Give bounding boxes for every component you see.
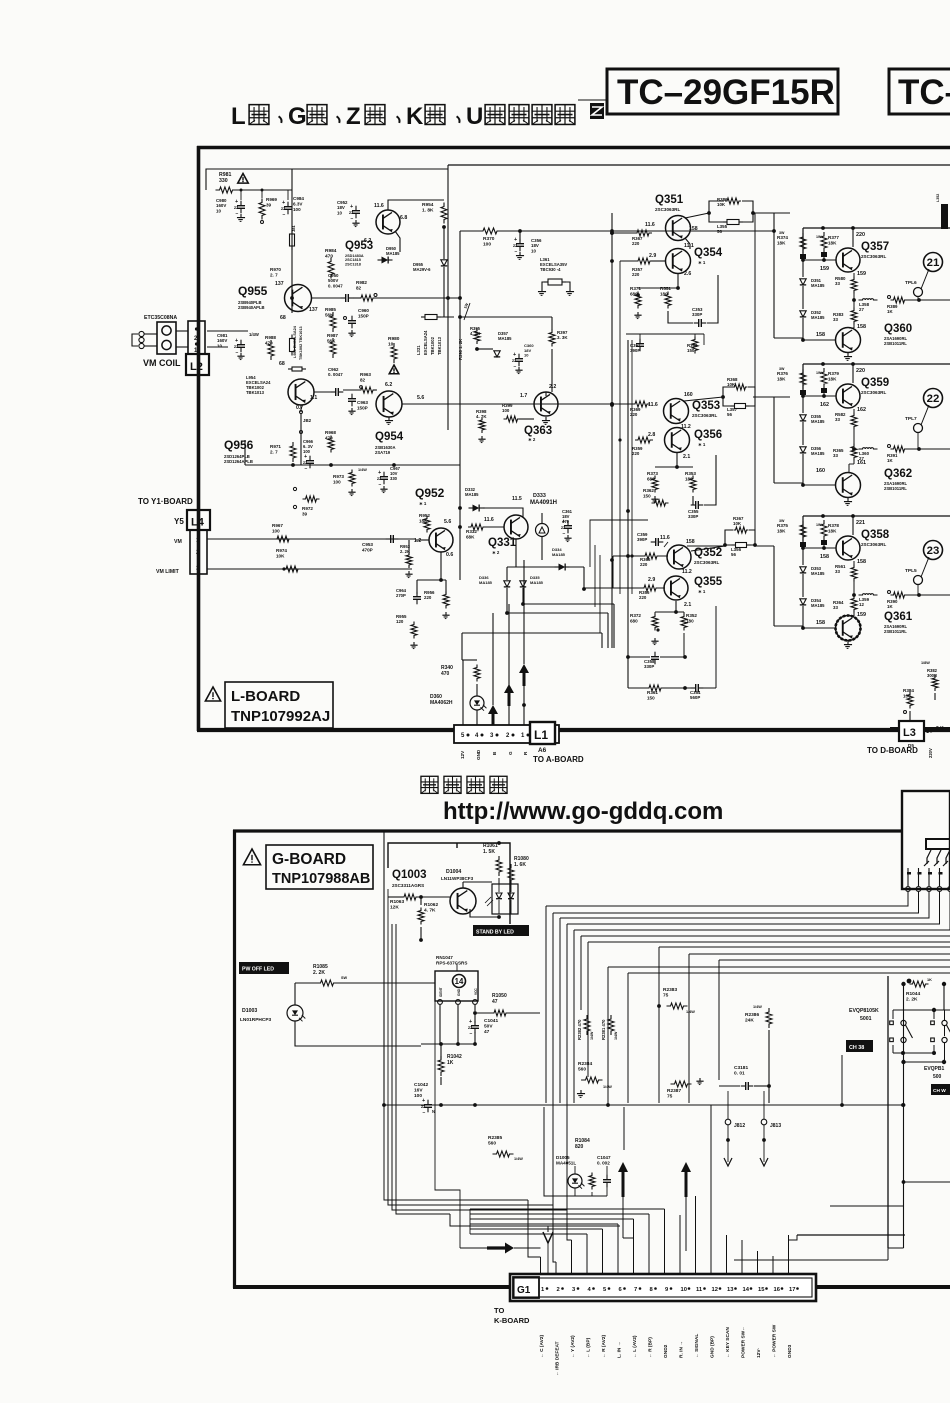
- svg-text:1K: 1K: [887, 604, 893, 609]
- wire L3 up: [909, 711, 911, 721]
- svg-text:TBK1013: TBK1013: [246, 390, 265, 395]
- wire down to L1: [459, 530, 461, 580]
- arrow down open: [547, 1226, 549, 1232]
- svg-text:−: −: [236, 211, 239, 217]
- transistor Q956a: [288, 379, 314, 405]
- svg-text:MA4091H: MA4091H: [530, 500, 557, 506]
- svg-text:TO: TO: [494, 1306, 504, 1315]
- svg-text:TO D-BOARD: TO D-BOARD: [867, 746, 918, 755]
- switch grid contacts: [890, 1021, 894, 1025]
- svg-text:1.1: 1.1: [310, 395, 317, 401]
- capacitor C356: [516, 243, 524, 245]
- svg-text:33: 33: [833, 605, 838, 610]
- svg-text:56: 56: [731, 552, 736, 557]
- svg-text:159: 159: [857, 271, 866, 277]
- svg-text:JB2: JB2: [303, 418, 312, 423]
- circled number 22: [924, 389, 943, 408]
- svg-text:4. 7K: 4. 7K: [424, 908, 436, 914]
- svg-text:Q331: Q331: [488, 537, 517, 549]
- wire loop to bracket C: [755, 545, 774, 547]
- svg-text:270P: 270P: [396, 593, 406, 598]
- svg-text:47: 47: [484, 1029, 490, 1035]
- svg-text:POWER SW←: POWER SW←: [741, 1326, 747, 1358]
- svg-text:G-BOARD: G-BOARD: [272, 851, 346, 868]
- svg-text:MA185: MA185: [811, 451, 825, 456]
- svg-text:MA185: MA185: [530, 580, 544, 585]
- svg-text:2.8: 2.8: [648, 432, 655, 438]
- svg-text:470: 470: [441, 671, 450, 677]
- wire bus465: [245, 464, 460, 466]
- svg-text:R973: R973: [333, 474, 344, 479]
- svg-text:14: 14: [743, 1287, 750, 1293]
- svg-text:R954: R954: [422, 202, 434, 208]
- wire top rail: [803, 515, 950, 517]
- svg-text:R1063: R1063: [390, 899, 404, 905]
- svg-text:2.9: 2.9: [649, 253, 656, 259]
- connector switches: [927, 850, 931, 864]
- title model box TC- (clipped): [889, 69, 950, 114]
- svg-text:33: 33: [833, 453, 838, 458]
- svg-text:10: 10: [681, 1287, 687, 1293]
- svg-text:R1044: R1044: [906, 991, 920, 997]
- svg-text:MA185: MA185: [811, 315, 825, 320]
- svg-text:33: 33: [835, 569, 840, 574]
- wire q956a out: [314, 391, 331, 393]
- svg-text:L331: L331: [416, 345, 421, 355]
- svg-text:12K: 12K: [390, 905, 399, 911]
- svg-text:150: 150: [643, 493, 651, 498]
- svg-text:100: 100: [502, 408, 510, 413]
- svg-text:GND2: GND2: [663, 1344, 669, 1358]
- fan group2 drops: [658, 947, 660, 1003]
- svg-text:−: −: [351, 216, 354, 222]
- L-board label box: [205, 687, 220, 701]
- svg-text:10: 10: [337, 210, 342, 215]
- svg-text:R361: R361: [647, 690, 658, 695]
- svg-text:MA185: MA185: [465, 492, 479, 497]
- wire nested drop loops: [384, 1105, 528, 1200]
- svg-text:18K: 18K: [777, 376, 786, 381]
- svg-text:zz: zz: [349, 210, 353, 215]
- svg-text:2SB1011RL: 2SB1011RL: [884, 341, 907, 346]
- fan wires group1 drops: [545, 906, 547, 1103]
- svg-text:2SA719: 2SA719: [375, 450, 391, 455]
- svg-text:MA4051L: MA4051L: [556, 1160, 576, 1165]
- svg-text:L3: L3: [903, 727, 916, 739]
- svg-text:−: −: [514, 364, 517, 370]
- svg-text:Q1003: Q1003: [392, 869, 427, 881]
- wire led loop: [294, 983, 296, 1005]
- svg-text:Z: Z: [346, 103, 361, 130]
- svg-text:330: 330: [219, 178, 228, 184]
- svg-text:2.6: 2.6: [684, 271, 691, 277]
- svg-text:11.6: 11.6: [484, 517, 494, 523]
- svg-text:2.2: 2.2: [549, 384, 556, 390]
- svg-text:10: 10: [388, 342, 394, 348]
- svg-text:L: L: [231, 103, 246, 130]
- outline q1003 circuit: [388, 843, 510, 924]
- svg-text:220: 220: [424, 595, 432, 600]
- svg-text:R988: R988: [265, 335, 276, 340]
- svg-text:← POWER SW: ← POWER SW: [772, 1324, 778, 1358]
- svg-text:330: 330: [390, 476, 398, 481]
- svg-text:L2: L2: [190, 361, 203, 373]
- svg-text:Q355: Q355: [694, 576, 723, 588]
- svg-text:12V: 12V: [460, 750, 465, 759]
- resistor R359: [635, 437, 653, 443]
- wire vmcoil: [144, 333, 157, 335]
- svg-text:J813: J813: [770, 1123, 781, 1129]
- svg-text:1/4W: 1/4W: [358, 468, 367, 472]
- svg-text:http://www.go-gddq.com: http://www.go-gddq.com: [443, 798, 723, 825]
- wire vert bus448: [447, 231, 449, 298]
- svg-text:R379: R379: [828, 371, 839, 376]
- jumper J812: [725, 1119, 731, 1125]
- svg-text:TPL7: TPL7: [905, 416, 917, 422]
- wire mid rail: [852, 593, 856, 597]
- svg-text:10K: 10K: [717, 202, 726, 207]
- svg-text:159: 159: [857, 612, 866, 618]
- wire left col: [207, 330, 248, 332]
- svg-text:159: 159: [820, 266, 829, 272]
- svg-text:10: 10: [524, 353, 529, 358]
- wire loop to bracket A: [755, 212, 774, 214]
- svg-text:R2387: R2387: [667, 1088, 681, 1094]
- svg-text:R969: R969: [266, 197, 277, 202]
- transistor Q954: [376, 391, 402, 417]
- svg-text:R370: R370: [483, 236, 495, 242]
- svg-text:Q352: Q352: [694, 547, 722, 559]
- svg-text:75: 75: [667, 1094, 673, 1100]
- stand by led tag: [473, 925, 529, 936]
- svg-text:470: 470: [325, 254, 333, 260]
- wire collector: [852, 364, 854, 383]
- tag CH 38: [846, 1040, 873, 1052]
- svg-text:1.7: 1.7: [520, 393, 527, 399]
- wire blockC frame: [627, 340, 629, 688]
- junction dots buses: [610, 231, 614, 235]
- jumper J81: [291, 230, 293, 234]
- svg-text:158: 158: [820, 554, 829, 560]
- svg-text:24K: 24K: [745, 1018, 754, 1024]
- wire q355 down: [675, 601, 677, 612]
- wire vm: [207, 538, 415, 540]
- svg-text:−: −: [470, 1031, 473, 1037]
- svg-text:6.2: 6.2: [364, 238, 371, 244]
- svg-text:L4: L4: [191, 517, 205, 529]
- svg-text:zz: zz: [468, 1025, 472, 1030]
- fan wires group1: [546, 892, 908, 907]
- svg-text:23: 23: [927, 545, 940, 557]
- svg-text:2SC1318: 2SC1318: [345, 262, 361, 266]
- svg-text:∗ 2: ∗ 2: [528, 437, 536, 442]
- svg-text:Q361: Q361: [884, 611, 913, 623]
- wire q354 down: [677, 274, 679, 288]
- svg-text:18K: 18K: [777, 528, 786, 533]
- svg-text:162: 162: [857, 407, 866, 413]
- wire bus1105: [384, 1104, 903, 1106]
- svg-text:Q954: Q954: [375, 431, 404, 443]
- svg-text:2SC3063RL: 2SC3063RL: [861, 542, 886, 547]
- svg-text:R2382 470: R2382 470: [577, 1019, 582, 1040]
- svg-text:2SB940APLB: 2SB940APLB: [238, 305, 265, 310]
- svg-text:39: 39: [302, 511, 308, 516]
- svg-text:390P: 390P: [637, 537, 647, 542]
- svg-text:C960: C960: [358, 308, 369, 313]
- wire pins: [462, 660, 464, 725]
- arrow up 1: [519, 664, 529, 686]
- svg-text:560P: 560P: [690, 695, 700, 700]
- transistor Q360: [836, 328, 861, 353]
- svg-text:158: 158: [816, 332, 825, 338]
- svg-text:R378: R378: [828, 523, 839, 528]
- svg-text:R362: R362: [643, 488, 654, 493]
- svg-text:2SB1011RL: 2SB1011RL: [884, 629, 907, 634]
- svg-text:R374: R374: [777, 235, 788, 240]
- svg-text:150: 150: [687, 348, 695, 353]
- svg-text:2SD1264APLB: 2SD1264APLB: [224, 459, 253, 464]
- svg-text:R952: R952: [419, 513, 430, 518]
- svg-text:LN01RPHCP3: LN01RPHCP3: [240, 1017, 272, 1023]
- svg-text:∗ 1: ∗ 1: [698, 589, 706, 594]
- svg-text:18K: 18K: [828, 240, 837, 245]
- wire collector: [852, 516, 854, 535]
- svg-text:−: −: [515, 249, 518, 255]
- svg-text:120: 120: [396, 619, 404, 624]
- svg-text:TNP107988AB: TNP107988AB: [272, 871, 370, 887]
- svg-text:Q351: Q351: [655, 194, 684, 206]
- svg-text:R967: R967: [272, 523, 283, 528]
- svg-text:R963: R963: [360, 372, 371, 377]
- resistor R356: [641, 585, 659, 591]
- svg-text:220: 220: [856, 232, 865, 238]
- svg-text:158: 158: [857, 324, 866, 330]
- svg-text:L352: L352: [936, 194, 940, 202]
- svg-text:1K: 1K: [927, 978, 932, 982]
- connector L2: [186, 354, 209, 375]
- wire nested loops left: [590, 520, 648, 567]
- svg-text:220: 220: [630, 412, 638, 417]
- svg-text:0.6: 0.6: [446, 552, 453, 558]
- svg-text:R384: R384: [903, 688, 914, 693]
- svg-text:C1042: C1042: [414, 1082, 428, 1088]
- svg-text:21: 21: [927, 257, 940, 269]
- svg-text:RPS-637CSRS: RPS-637CSRS: [436, 960, 467, 965]
- svg-text:330P: 330P: [692, 312, 702, 317]
- svg-text:82: 82: [356, 285, 362, 290]
- svg-text:33: 33: [835, 417, 840, 422]
- wire loop bus vertical: [754, 213, 756, 397]
- svg-text:5001: 5001: [860, 1016, 872, 1022]
- svg-text:TO Y1·BOARD: TO Y1·BOARD: [138, 497, 193, 506]
- wire left rail: [802, 516, 804, 548]
- svg-text:14: 14: [455, 977, 464, 986]
- svg-text:1/4W: 1/4W: [603, 1085, 612, 1089]
- svg-text:560: 560: [578, 1067, 586, 1073]
- svg-text:11.6: 11.6: [648, 402, 658, 408]
- svg-text:J812: J812: [734, 1123, 745, 1129]
- svg-text:2.9: 2.9: [648, 577, 655, 583]
- svg-text:820: 820: [575, 1144, 584, 1150]
- svg-text:∗ 1: ∗ 1: [698, 442, 706, 447]
- svg-text:PW OFF LED: PW OFF LED: [242, 967, 274, 973]
- svg-text:12: 12: [859, 602, 864, 607]
- svg-text:← L (BP): ← L (BP): [586, 1337, 592, 1358]
- svg-text:TO A-BOARD: TO A-BOARD: [533, 755, 584, 764]
- svg-text:G: G: [508, 751, 513, 755]
- svg-text:C1047: C1047: [597, 1155, 611, 1160]
- resistor near d1005: [589, 1173, 595, 1190]
- svg-text:1/4W: 1/4W: [249, 332, 259, 337]
- svg-text:10K: 10K: [733, 521, 742, 526]
- svg-text:← R (BP): ← R (BP): [648, 1337, 654, 1358]
- wire base rail: [803, 547, 836, 549]
- svg-text:10K: 10K: [276, 553, 285, 558]
- svg-text:D1005: D1005: [556, 1155, 570, 1160]
- svg-text:RN1047: RN1047: [436, 955, 453, 960]
- wire top bus: [206, 169, 448, 190]
- connector L4 pins: [190, 530, 207, 574]
- svg-text:10: 10: [216, 208, 221, 213]
- svg-text:11.6: 11.6: [660, 535, 670, 541]
- svg-text:TPL6: TPL6: [905, 280, 917, 286]
- svg-text:← Y (AV2): ← Y (AV2): [570, 1335, 576, 1358]
- wire left rail: [802, 364, 804, 396]
- svg-text:68: 68: [279, 361, 285, 367]
- wire bus mid: [459, 231, 461, 317]
- svg-text:47: 47: [492, 999, 498, 1005]
- svg-text:D333: D333: [533, 493, 546, 499]
- watermark CJK guangdian: [421, 776, 438, 793]
- svg-text:G: G: [288, 103, 307, 130]
- svg-text:GND: GND: [476, 749, 481, 760]
- tag CH W: [931, 1084, 950, 1095]
- svg-text:2SC3063RL: 2SC3063RL: [655, 207, 680, 212]
- G-board outline: [233, 829, 902, 832]
- svg-text:0. 01: 0. 01: [734, 1071, 745, 1077]
- svg-text:R974: R974: [276, 548, 287, 553]
- svg-text:15: 15: [758, 1287, 765, 1293]
- small stamp mark: [590, 103, 604, 119]
- jumper J813: [761, 1119, 767, 1125]
- svg-text:0.7: 0.7: [296, 405, 303, 411]
- svg-text:EVQPB1: EVQPB1: [924, 1066, 945, 1072]
- svg-text:R2385: R2385: [488, 1135, 502, 1141]
- wire g1 riser wires: [540, 1257, 542, 1280]
- arrow up g2: [681, 1162, 691, 1197]
- wire bus y231: [460, 230, 483, 232]
- svg-text:TBC930 -4: TBC930 -4: [540, 267, 561, 272]
- svg-text:470P: 470P: [362, 547, 373, 552]
- svg-text:C1041: C1041: [484, 1018, 498, 1024]
- svg-text:158: 158: [857, 559, 866, 565]
- svg-text:MA4062H: MA4062H: [430, 700, 453, 706]
- svg-text:100: 100: [483, 242, 491, 248]
- svg-text:R373: R373: [647, 471, 658, 476]
- svg-text:R2384: R2384: [578, 1061, 592, 1067]
- svg-text:← R (AV2): ← R (AV2): [601, 1335, 607, 1358]
- wire vert buses left: [383, 832, 385, 1105]
- led pair box: [492, 884, 518, 914]
- svg-text:−: −: [563, 531, 566, 537]
- svg-text:Q356: Q356: [694, 429, 722, 441]
- svg-text:11: 11: [696, 1287, 703, 1293]
- wire collector: [852, 228, 854, 247]
- wire r981 down: [236, 189, 292, 191]
- svg-text:EVQP8105K: EVQP8105K: [849, 1008, 879, 1014]
- svg-text:10: 10: [531, 248, 536, 253]
- svg-text:56: 56: [727, 412, 732, 417]
- svg-text:zz: zz: [234, 205, 238, 210]
- svg-text:Y5: Y5: [174, 517, 184, 526]
- svg-text:7: 7: [634, 1287, 637, 1293]
- svg-text:C953: C953: [362, 542, 373, 547]
- svg-text:D1003: D1003: [242, 1008, 257, 1014]
- svg-text:VM: VM: [174, 539, 182, 545]
- svg-text:22: 22: [927, 393, 940, 405]
- transistor Q952: [429, 528, 453, 552]
- svg-text:MA185: MA185: [811, 571, 825, 576]
- svg-text:STAND BY LED: STAND BY LED: [476, 930, 514, 936]
- svg-text:18K: 18K: [828, 376, 837, 381]
- svg-text:33: 33: [833, 317, 838, 322]
- svg-text:137: 137: [309, 307, 318, 313]
- svg-text:MA185: MA185: [552, 552, 566, 557]
- svg-text:221: 221: [856, 520, 865, 526]
- svg-text:68: 68: [280, 315, 286, 321]
- svg-text:18K: 18K: [777, 240, 786, 245]
- svg-text:zz: zz: [234, 344, 238, 349]
- svg-text:220: 220: [856, 368, 865, 374]
- svg-text:100: 100: [272, 528, 280, 533]
- svg-text:158: 158: [816, 620, 825, 626]
- wire top rail: [803, 227, 950, 229]
- wire diode outs: [584, 587, 613, 589]
- svg-text:100: 100: [293, 207, 301, 212]
- wire loop to bracket B: [755, 396, 774, 398]
- svg-text:1. 5K: 1. 5K: [483, 849, 495, 855]
- svg-text:R372: R372: [630, 613, 641, 618]
- diode D355: [802, 396, 804, 413]
- svg-text:56: 56: [717, 229, 722, 234]
- svg-text:Q952: Q952: [415, 486, 445, 500]
- svg-text:D1004: D1004: [446, 869, 461, 875]
- svg-text:U: U: [466, 103, 483, 130]
- svg-text:2. 7: 2. 7: [270, 272, 278, 277]
- svg-text:330P: 330P: [688, 514, 698, 519]
- svg-text:GND3: GND3: [787, 1344, 793, 1358]
- diode box: [507, 566, 584, 568]
- svg-text:2SB1011RL: 2SB1011RL: [884, 486, 907, 491]
- wire q953 col: [388, 200, 444, 210]
- wire j984: [291, 283, 293, 313]
- svg-text:50V: 50V: [484, 1024, 493, 1030]
- connector top right box: [902, 791, 950, 889]
- arrow up 3: [488, 705, 498, 726]
- svg-text:MA185: MA185: [811, 419, 825, 424]
- svg-text:13: 13: [727, 1287, 734, 1293]
- arrow right g: [487, 1243, 514, 1254]
- svg-text:L. IN →: L. IN →: [617, 1341, 623, 1358]
- svg-text:zz: zz: [281, 206, 285, 211]
- diode D356: [800, 447, 806, 453]
- resistor R357: [635, 258, 653, 264]
- svg-text:27: 27: [859, 307, 864, 312]
- svg-text:1/4W: 1/4W: [753, 1005, 762, 1009]
- svg-text:−: −: [283, 212, 286, 218]
- svg-text:← IRB DEFEAT: ← IRB DEFEAT: [555, 1341, 561, 1376]
- svg-text:0. 0047: 0. 0047: [328, 283, 343, 288]
